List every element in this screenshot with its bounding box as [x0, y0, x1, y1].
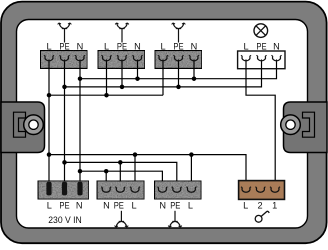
lamp symbol E1 (circle with cross): [254, 24, 268, 38]
junction node 5: [176, 85, 181, 90]
right mounting latch: [284, 102, 328, 153]
wire X2-PE drop: [121, 60, 123, 87]
outgoing feeder symbol (double arrow down): [120, 211, 122, 222]
junction node 3: [62, 85, 67, 90]
junction node 11: [189, 152, 194, 157]
svg-text:PE: PE: [173, 41, 183, 51]
junction node 7: [135, 76, 140, 81]
outgoing feeder symbol (double arrow up): [178, 29, 180, 43]
left latch lever bracket: [14, 112, 26, 137]
wire PE bus: [65, 60, 262, 87]
svg-text:N: N: [134, 41, 141, 51]
connector X3 socket output 3 (L PE N): [155, 50, 202, 68]
connector X1 socket output 1 (L PE N): [40, 50, 87, 68]
svg-text:N: N: [76, 200, 83, 210]
junction node 14: [78, 169, 83, 174]
wire L feed line to switch terminal L: [49, 155, 246, 191]
wire switched line: lamp X4-L to switch terminal 1: [246, 60, 275, 191]
wire PE line to lamp outputs: [65, 162, 177, 191]
junction node 9: [47, 152, 52, 157]
svg-text:N: N: [273, 41, 280, 51]
svg-text:PE: PE: [114, 200, 124, 210]
svg-text:PE: PE: [170, 200, 180, 210]
svg-text:N: N: [103, 200, 110, 210]
svg-text:PE: PE: [59, 200, 69, 210]
connector X8 switch connector (L 2 1, brown): [239, 181, 285, 200]
connector X2 socket output 2 (L PE N): [98, 50, 145, 68]
junction node 15: [104, 169, 109, 174]
svg-text:L: L: [47, 200, 52, 210]
svg-text:L: L: [243, 41, 248, 51]
svg-text:1: 1: [272, 200, 277, 210]
wire L: input 230V / X1-L / lamps feed (vertical): [48, 60, 50, 184]
svg-text:L: L: [104, 41, 109, 51]
wire PE: input 230V / X1-PE (vertical): [64, 60, 66, 184]
junction node 2: [104, 93, 109, 98]
wire N bus: [80, 60, 277, 79]
junction node 10: [133, 152, 138, 157]
junction node 12: [62, 160, 67, 165]
connector X7 lamp output 2 (N PE L): [154, 181, 201, 200]
wire N: input 230V / X1-N (vertical): [79, 60, 81, 184]
connector X5 230 V supply input (L PE N): [38, 181, 89, 200]
wire lamp1 N drop: [105, 171, 107, 191]
svg-text:L: L: [188, 200, 193, 210]
switch symbol S1 (one-way switch): [255, 211, 269, 222]
svg-text:230 V IN: 230 V IN: [48, 215, 82, 225]
wire lamp1 PE drop: [119, 162, 121, 191]
outgoing feeder symbol (double arrow up): [121, 29, 123, 43]
junction node 4: [120, 85, 125, 90]
svg-text:N: N: [191, 41, 198, 51]
junction node 13: [118, 160, 123, 165]
svg-text:L: L: [243, 200, 248, 210]
svg-text:L: L: [160, 41, 165, 51]
svg-text:PE: PE: [117, 41, 127, 51]
connector X4 switched lamp output (L PE N, white): [238, 51, 285, 69]
wire N line to lamp outputs: [80, 171, 162, 191]
svg-text:N: N: [159, 200, 166, 210]
outgoing feeder symbol (double arrow down): [174, 211, 176, 222]
left latch screw boss: [24, 115, 44, 135]
svg-text:2: 2: [258, 200, 263, 210]
svg-text:L: L: [46, 41, 51, 51]
svg-text:N: N: [77, 41, 84, 51]
wire X2-N drop: [137, 60, 139, 79]
junction node 1: [47, 93, 52, 98]
svg-text:PE: PE: [256, 41, 266, 51]
wire X3-N drop: [193, 60, 195, 79]
left mounting latch: [1, 102, 45, 153]
wire lamp1 L drop: [134, 155, 136, 191]
outgoing feeder symbol (double arrow up): [64, 29, 66, 43]
svg-text:L: L: [131, 200, 136, 210]
junction node 6: [78, 76, 83, 81]
connector X6 lamp output 1 (N PE L): [97, 181, 145, 200]
right latch lever bracket: [303, 112, 315, 137]
wire X2-L drop: [106, 60, 108, 95]
junction node 8: [192, 76, 197, 81]
wire X3-L drop: [162, 60, 164, 95]
wire X3-PE drop: [178, 60, 180, 87]
svg-text:PE: PE: [59, 41, 69, 51]
enclosure inner white area: [17, 20, 308, 229]
wire lamp2 L drop: [190, 155, 192, 191]
right latch screw boss: [281, 115, 301, 135]
wire L bus: [49, 94, 163, 96]
